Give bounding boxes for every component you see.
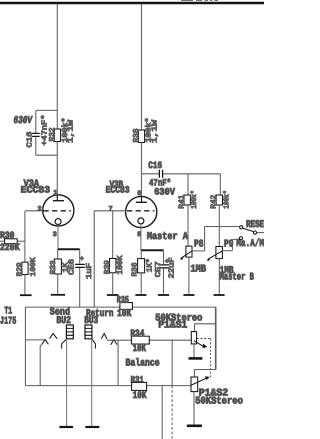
ground (R39) — [107, 294, 119, 296]
wire plate supply drop V3A — [56, 4, 58, 129]
svg-text:1MB: 1MB — [191, 265, 207, 276]
svg-text:ECC83: ECC83 — [106, 185, 130, 196]
svg-text:10K: 10K — [133, 391, 148, 402]
wire R29 to ground — [24, 275, 26, 295]
wire P9 riser — [231, 239, 233, 250]
V3A cathode lead — [57, 225, 59, 250]
label R36 (vertical) — [130, 262, 139, 277]
P9 wiper arrow — [208, 251, 222, 259]
wire C16 left branch upper — [35, 110, 37, 133]
wire return node — [107, 339, 191, 341]
ground (P9) — [214, 294, 225, 296]
label R32 (vertical) — [48, 128, 57, 142]
jack BU3 switch hook — [92, 339, 96, 348]
svg-text:CE7: CE7 — [154, 261, 163, 277]
wire output A drop — [171, 340, 173, 385]
svg-text:R34: R34 — [130, 328, 144, 339]
svg-text:Balance: Balance — [126, 357, 160, 369]
potentiometer P1&S2 body — [191, 377, 198, 392]
resistor R42 body — [216, 195, 222, 205]
wire R32/C16 parallel loop top — [36, 109, 58, 111]
wire output B drop — [161, 386, 163, 439]
wire R33 to ground — [57, 274, 59, 294]
ground (P8) — [183, 294, 194, 296]
wire V3B grid drop to R39 — [112, 211, 114, 259]
V3A grid dashed — [44, 210, 72, 212]
wire V3B plate to C16 — [142, 173, 159, 175]
value 1,1W (vertical) — [151, 119, 159, 143]
label R39 (vertical) — [103, 260, 112, 274]
resistor R32 body — [54, 129, 60, 142]
value 100k* (vertical) — [190, 190, 199, 209]
svg-text:CE6: CE6 — [67, 258, 76, 275]
label R41 (vertical) — [179, 194, 187, 209]
value 100k* (vertical) — [144, 118, 153, 143]
jack BU2 body — [66, 325, 73, 339]
svg-text:RESE: RESE — [246, 220, 264, 231]
svg-text:100k*: 100k* — [222, 190, 231, 209]
value 1,1W (vertical) — [67, 119, 75, 143]
svg-text:R39: R39 — [103, 260, 112, 274]
V3B plate bar — [136, 201, 147, 203]
label R33 (vertical) — [49, 260, 58, 275]
ground (CE7) — [158, 294, 169, 296]
svg-text:1K*: 1K* — [146, 258, 155, 272]
wire output A drop dashed — [171, 386, 173, 439]
svg-text:J175: J175 — [0, 317, 16, 328]
resistor R39 body — [110, 259, 116, 273]
svg-text:10K: 10K — [117, 309, 132, 320]
V3A plate bar — [53, 200, 64, 202]
potentiometer P8 body — [186, 246, 192, 257]
wire P8 bottom to ground — [188, 257, 190, 294]
V3B grid wire from left — [94, 210, 126, 212]
resistor R33 body — [54, 259, 61, 274]
ground (R29) — [20, 294, 32, 296]
resistor R36 body — [138, 259, 145, 273]
triode V3A envelope — [43, 195, 74, 226]
svg-text:C16: C16 — [148, 160, 162, 171]
P8 wiper arrow — [181, 251, 192, 258]
wire R41 to P8 — [187, 205, 189, 246]
value 22uF (vertical) — [168, 257, 177, 278]
resistor R34 body — [131, 336, 149, 344]
switch arm — [243, 228, 254, 231]
capacitor CE7 plates — [158, 265, 169, 268]
value 100k* (vertical) — [222, 190, 231, 209]
module left edge wire — [24, 307, 26, 386]
wire P8 wiper riser — [204, 227, 206, 251]
module bottom wire — [25, 385, 191, 387]
V3B plate lead inside — [141, 197, 143, 203]
switch contact circle right — [253, 231, 256, 234]
wire R38 to V3B plate — [141, 143, 143, 197]
wire to terminal — [232, 238, 239, 240]
module right edge wire — [215, 307, 217, 369]
wire R30 right to grid column — [17, 240, 25, 242]
svg-text:2: 2 — [38, 205, 42, 212]
svg-text:R32: R32 — [48, 128, 57, 142]
V3B cathode circle — [138, 218, 144, 224]
svg-text:Master A: Master A — [147, 232, 189, 243]
terminal circle (Ma.A/M) — [239, 237, 242, 240]
resistor R30 body — [5, 239, 18, 244]
svg-text:630V: 630V — [14, 115, 34, 127]
svg-text:3: 3 — [53, 231, 57, 238]
svg-text:1,1W: 1,1W — [67, 119, 75, 143]
wire CE6 bottom lead to bus — [79, 268, 81, 307]
wire T1 winding — [25, 339, 45, 341]
jack contact caret large (return) — [111, 340, 117, 345]
wire down to R41 — [187, 174, 189, 195]
wire BU2 sleeve down — [66, 339, 68, 426]
resistor R31 body — [132, 382, 147, 390]
wire P1S1 top to right edge — [195, 323, 216, 325]
svg-text:R38: R38 — [132, 129, 141, 143]
value 100K (vertical) — [29, 257, 38, 277]
wire CE7 to ground — [163, 268, 165, 293]
V3A grid wire from left node — [25, 210, 43, 212]
wire plate supply drop V3B — [141, 4, 143, 130]
wire P9 wiper out — [222, 250, 232, 252]
wire CE6 top lead — [79, 249, 81, 263]
jack contact caret small (return) — [101, 334, 107, 339]
svg-text:630V: 630V — [154, 187, 175, 198]
value 1uF (vertical) — [86, 263, 94, 279]
svg-text:1: 1 — [53, 190, 57, 197]
V3B cathode lead — [140, 224, 142, 250]
jack contact caret large (send) — [50, 333, 58, 339]
value 100k* (vertical) — [61, 118, 70, 143]
label R42 (vertical) — [210, 195, 219, 209]
P1S1 wiper arrow — [194, 341, 205, 348]
resistor R35 body — [120, 303, 132, 310]
switch contact circle left — [240, 226, 243, 229]
svg-text:8: 8 — [137, 231, 141, 238]
svg-text:1uF: 1uF — [86, 263, 94, 279]
V3B grid dashed — [127, 210, 154, 212]
wire V3B cathode node (thick) — [141, 249, 163, 251]
wire R36 to ground — [140, 273, 142, 294]
wire cathode to R36 — [140, 250, 142, 258]
svg-text:+: + — [80, 256, 84, 263]
value 1K (vertical) — [62, 262, 70, 273]
svg-text:R33: R33 — [49, 260, 58, 275]
wire P8 wiper out — [192, 250, 205, 252]
svg-text:P8: P8 — [194, 239, 204, 250]
wire cathode to R33 — [57, 249, 59, 259]
value 1K* (vertical) — [146, 258, 155, 272]
wire right edge corner to P1S2 — [194, 370, 215, 378]
wire P1S1 top lead — [194, 324, 196, 332]
svg-text:100K: 100K — [29, 257, 38, 277]
wire R30 left to edge — [0, 240, 5, 242]
svg-text:ECC83: ECC83 — [21, 184, 51, 195]
wire CE7 top lead — [163, 250, 165, 264]
wire C16 left branch lower — [35, 137, 37, 155]
svg-text:220K: 220K — [0, 242, 20, 253]
resistor R38 body — [138, 130, 144, 143]
label CE6 (vertical) — [67, 258, 76, 275]
ground (P1S2) — [187, 424, 202, 427]
wire grid node to bus — [93, 211, 95, 307]
wire P1S2 bottom — [193, 392, 195, 425]
wire V3A cathode node (thick) — [58, 248, 80, 250]
wire return node drop to balance wire — [117, 340, 119, 385]
wire P1S1 bottom — [193, 344, 195, 357]
gang link dashes (S1) — [197, 339, 211, 378]
wire loop bottom — [36, 154, 58, 156]
resistor R29 body — [22, 262, 28, 274]
svg-text:22uF: 22uF — [168, 257, 177, 278]
svg-text:7: 7 — [109, 205, 113, 212]
module bus wire (top) — [25, 306, 215, 308]
wire HT supply rail top — [0, 2, 264, 4]
svg-text:1,1W: 1,1W — [151, 119, 159, 143]
jack contact caret small (send) — [42, 340, 49, 345]
scan specks above rail — [181, 0, 218, 2]
resistor R41 body — [184, 195, 190, 205]
svg-text:R42: R42 — [210, 195, 219, 209]
potentiometer P1&S1 body — [191, 332, 196, 344]
wire V3A grid column — [24, 211, 26, 262]
wire switch to edge — [257, 232, 264, 234]
capacitor CE6 plates — [75, 264, 85, 267]
svg-text:P1&S1: P1&S1 — [158, 321, 187, 332]
V3A plate lead inside — [56, 195, 58, 201]
label R29 (vertical) — [15, 262, 24, 276]
wire R42 to P9 — [218, 205, 220, 247]
svg-text:6: 6 — [137, 190, 141, 197]
ground (P1S1) — [189, 357, 203, 360]
svg-text:R41: R41 — [179, 194, 187, 209]
svg-text:R30: R30 — [0, 230, 15, 241]
ground (BU2) — [59, 426, 73, 428]
value 100K (vertical) — [116, 255, 125, 275]
svg-text:50KStereo: 50KStereo — [195, 397, 243, 408]
capacitor C16 (plate feed, plates) — [32, 133, 40, 136]
capacitor C16 coupling plates — [159, 170, 162, 178]
value +47nF* (vertical) — [41, 115, 50, 146]
ground (R33) — [51, 294, 65, 296]
ground (R36) — [135, 294, 146, 296]
wire P9 bottom to ground — [218, 259, 220, 294]
svg-text:R36: R36 — [130, 262, 139, 277]
potentiometer P9 body — [216, 247, 223, 259]
svg-text:100k*: 100k* — [190, 190, 199, 209]
svg-text:R29: R29 — [15, 262, 24, 276]
svg-text:100K: 100K — [116, 255, 125, 275]
label C16 (vertical) — [25, 131, 34, 148]
wire R39 to ground — [112, 273, 114, 294]
svg-text:Master B: Master B — [220, 272, 254, 283]
label CE7 (vertical) — [154, 261, 163, 277]
svg-text:C16: C16 — [25, 131, 34, 148]
wire BU3 sleeve down — [91, 339, 93, 426]
label R38 (vertical) — [132, 129, 141, 143]
ground (BU3) — [85, 426, 99, 428]
svg-text:10K: 10K — [133, 344, 147, 355]
jack BU2 switch hook — [62, 339, 67, 348]
wire to switch — [205, 226, 239, 228]
jack BU3 body — [85, 325, 92, 339]
wire T1 lead down — [40, 344, 42, 385]
V3A cathode circle — [55, 219, 61, 225]
wire C16 to R41/R42 — [163, 173, 220, 175]
wire down to R42 — [219, 174, 221, 195]
wire R32 to V3A plate — [56, 142, 58, 196]
svg-text:R35: R35 — [117, 294, 129, 305]
triode V3B envelope — [126, 196, 157, 227]
P1S2 wiper arrow — [192, 378, 208, 385]
